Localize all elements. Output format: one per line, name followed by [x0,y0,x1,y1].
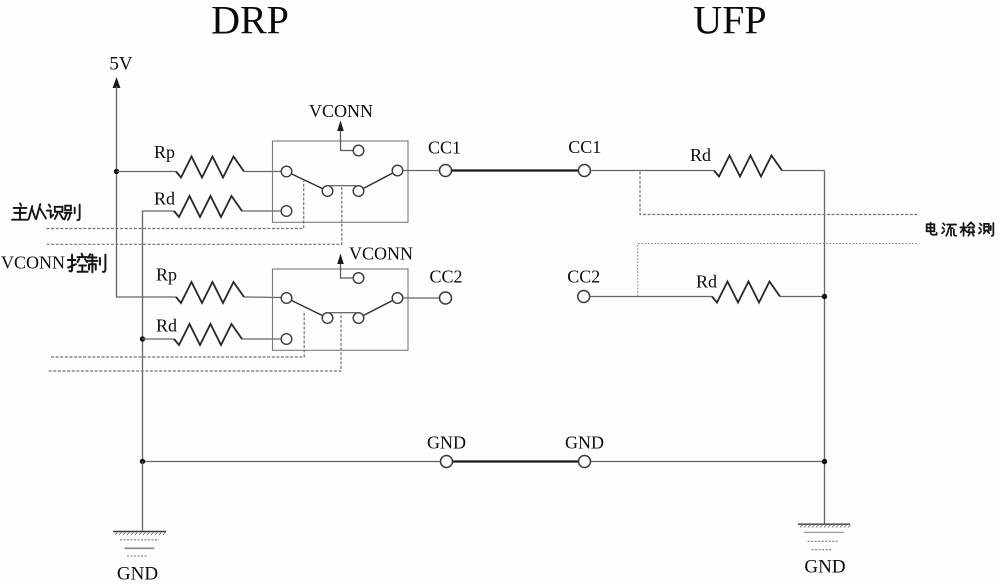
wire to left ground [142,462,144,532]
switch S2 contact circles [281,273,403,345]
switch S1 lever left [287,172,328,192]
svg-text:CC1: CC1 [428,138,461,158]
switch S1 contact circles [281,145,403,216]
svg-text:Rp: Rp [154,142,175,162]
node: 5V/Rp junction [114,169,119,174]
svg-text:Rd: Rd [156,316,177,336]
5V arrow [113,77,121,88]
VCONN2 arrow wire [341,262,354,278]
terminal CC2 (DRP) [440,292,452,304]
net VCONN control 2 (dashed) [49,313,341,371]
wire Rd1 to switch S1 [242,210,282,212]
switch S1 box [273,141,409,222]
resistor Rd4 [712,282,780,303]
wire CC1 to Rd3 [590,170,714,172]
terminal CC2 (UFP) [578,291,590,303]
wire S1 to CC1 terminal [403,170,440,172]
label 电流检测 (current detection) [927,222,994,235]
wire Rd4 to UFP rail [780,296,825,298]
svg-text:DRP: DRP [211,0,289,43]
wire 5V to Rp1 [117,171,177,173]
svg-text:VCONN: VCONN [309,101,373,121]
svg-text:Rp: Rp [156,265,177,285]
terminal CC1 (UFP) [578,165,590,177]
node: left GND junction [140,459,145,464]
GND bus wire [143,461,825,463]
node: Rd4/rail junction [822,294,827,299]
svg-text:GND: GND [117,564,158,584]
svg-text:VCONN: VCONN [1,253,65,273]
svg-text:CC1: CC1 [568,137,601,157]
net 主从识别 control stage2 (dashed) [51,312,304,357]
svg-text:GND: GND [427,433,466,453]
5V rail wire [117,86,177,297]
switch S2 lever left [287,298,328,318]
ground (left earth symbol) [113,532,166,557]
net VCONN control 1 (dashed) [47,186,342,245]
switch S2 box [273,269,409,350]
net current-sense CC2 (dotted) [638,244,917,297]
wire CC2 to Rd4 [590,296,712,298]
CC1 cable link (thick) [452,169,579,171]
svg-text:GND: GND [804,557,845,578]
terminal GND (UFP) [579,456,591,468]
svg-text:5V: 5V [109,54,133,75]
svg-text:GND: GND [565,433,604,453]
terminal GND (DRP) [441,456,453,468]
wire Rp1 to switch S1 [244,171,282,173]
svg-text:CC2: CC2 [429,267,462,287]
wire Rd2 [143,338,175,340]
VCONN1 arrow wire [341,129,354,151]
node: right GND junction [822,459,827,464]
svg-text:VCONN: VCONN [349,244,413,264]
svg-text:Rd: Rd [154,189,175,209]
UFP ground rail wire [824,171,826,525]
resistor Rd2 [174,324,242,345]
wire Rd1 left elbow [143,211,175,462]
net current-sense CC1 (dashed) [640,172,919,215]
switch S2 pole bar [328,312,359,314]
svg-text:UFP: UFP [693,0,766,43]
resistor Rp1 [176,157,244,178]
switch S1 pole bar [328,185,359,187]
wire S2 to CC2 terminal [403,297,440,299]
wire Rp2 to switch S2 [244,296,282,299]
wire Rd2 to switch S2 [242,338,282,340]
resistor Rd3 [714,156,782,177]
switch S1 lever right [359,171,398,192]
GND cable link (thick) [453,460,579,462]
svg-text:CC2: CC2 [567,267,600,287]
switch S2 lever right [359,298,398,318]
node: Rd rail junction [140,336,145,341]
label 主从识别 (master/slave identification) [12,203,80,220]
svg-text:Rd: Rd [690,145,711,165]
ground (right earth symbol) [798,524,851,550]
resistor Rp2 [176,282,244,303]
resistor Rd1 [174,196,242,217]
net 主从识别 control (dashed) [47,181,304,229]
wire Rd3 to UFP rail [782,170,825,172]
terminal CC1 (DRP) [440,165,452,177]
svg-text:Rd: Rd [696,272,717,292]
